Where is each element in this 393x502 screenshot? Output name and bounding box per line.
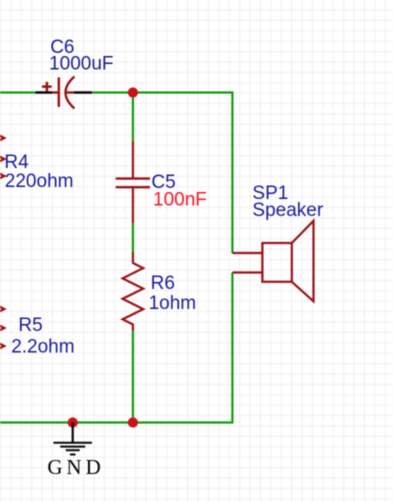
speaker SP1 body rectangle: [262, 243, 291, 282]
capacitor C5 bottom lead: [132, 188, 134, 223]
capacitor C6 curved negative plate: [66, 77, 75, 109]
node: junction dot top: [128, 87, 138, 97]
svg-text:220ohm: 220ohm: [5, 171, 74, 192]
svg-text:2.2ohm: 2.2ohm: [11, 336, 74, 357]
capacitor C6 pin 1 red end: [52, 91, 59, 93]
ground symbol bar 3: [66, 449, 80, 451]
capacitor C6 right lead (pin 2, black): [74, 91, 92, 94]
wire: C5 to R6: [132, 223, 134, 252]
svg-text:Speaker: Speaker: [252, 200, 323, 221]
wire: top net left segment: [0, 91, 36, 93]
capacitor C5 bottom plate: [116, 186, 150, 188]
svg-text:R6: R6: [151, 273, 175, 294]
resistor R4 (clipped at left edge, right vertices only): [0, 133, 4, 181]
svg-text:R4: R4: [4, 152, 29, 173]
wire: top net from C6 to right corner down to speaker pin 1: [92, 93, 233, 254]
svg-text:GND: GND: [47, 455, 103, 479]
wire: branch from top junction down to C5: [132, 93, 134, 142]
svg-text:1ohm: 1ohm: [149, 293, 197, 314]
capacitor C6 plus sign: [42, 82, 52, 92]
resistor R5 (clipped at left edge, right vertices only): [0, 304, 4, 351]
svg-text:R5: R5: [18, 315, 42, 336]
ground symbol bar 4: [70, 454, 76, 456]
ground symbol stub: [72, 423, 74, 443]
wire: speaker pin 2 down to bottom net and bottom wire to left edge: [0, 273, 232, 423]
ground symbol bar 1: [54, 442, 92, 444]
speaker SP1 pin 1 stub: [232, 252, 262, 254]
svg-text:1000uF: 1000uF: [49, 53, 113, 74]
resistor R6 (zigzag with leads): [123, 252, 144, 331]
capacitor C5 top plate: [116, 177, 150, 179]
ground symbol bar 2: [60, 446, 85, 448]
capacitor C6 pin 2 red end: [65, 91, 74, 93]
node: junction dot bottom middle: [128, 417, 138, 427]
speaker SP1 horn: [292, 221, 314, 301]
capacitor C6 positive plate: [58, 77, 60, 107]
capacitor C5 top lead: [132, 141, 134, 178]
capacitor C6 left lead (pin 1, black): [36, 91, 53, 94]
node: junction dot bottom left (GND): [68, 417, 78, 427]
svg-text:100nF: 100nF: [153, 189, 207, 210]
wire: R6 to bottom net: [132, 331, 134, 423]
speaker SP1 pin 2 stub: [232, 271, 262, 273]
